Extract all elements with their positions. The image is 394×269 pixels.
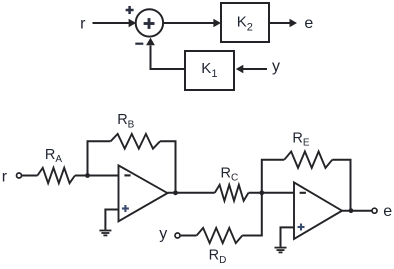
resistor RB	[111, 112, 160, 149]
svg-text:r: r	[2, 168, 8, 185]
ground (U2 non-inverting)	[275, 248, 287, 253]
minus sign (feedback polarity)	[135, 43, 143, 45]
wire K2 to e with arrowhead	[269, 19, 297, 28]
wire K1 to summing junction with arrowhead	[146, 38, 185, 69]
ground (U1 non-inverting)	[99, 231, 111, 236]
wire r to summing junction with arrowhead	[93, 19, 137, 28]
resistor RC	[215, 165, 249, 201]
op-amp U1	[119, 165, 168, 221]
wire RD to node B	[242, 193, 261, 236]
svg-text:e: e	[304, 15, 313, 32]
wire U1 output to RC	[168, 192, 215, 194]
wire RE to U2 output	[332, 160, 350, 211]
summing junction circle	[136, 9, 163, 36]
resistor RE	[284, 131, 332, 168]
wire RC to op-amp U2 inverting input	[249, 192, 295, 194]
svg-text:K1: K1	[201, 60, 217, 80]
svg-text:RD: RD	[209, 248, 227, 266]
op-amp U2	[294, 182, 342, 239]
wire U2 non-inverting input to ground	[281, 227, 295, 247]
wire node B up to RE	[262, 160, 285, 193]
junction U1 output / RB feedback	[173, 190, 178, 195]
svg-text:e: e	[383, 203, 392, 220]
junction node A (RA / RB / U1 inverting)	[85, 173, 90, 178]
resistor RA	[37, 147, 75, 183]
wire y to K1 with arrowhead	[236, 65, 267, 74]
plus sign inside summing junction	[144, 18, 155, 29]
block K2	[221, 3, 269, 42]
svg-text:y: y	[159, 225, 167, 242]
wire U2 output to e terminal	[342, 210, 372, 212]
wire U1 non-inverting input to ground	[105, 210, 118, 230]
svg-text:y: y	[272, 58, 280, 75]
svg-text:K2: K2	[237, 13, 253, 33]
block K1	[185, 51, 234, 90]
terminal y (open circle)	[175, 233, 180, 238]
plus sign (r input polarity)	[126, 6, 134, 14]
svg-text:RA: RA	[45, 147, 62, 165]
svg-text:RB: RB	[117, 112, 134, 130]
wire r terminal to RA	[21, 175, 37, 177]
terminal r (open circle)	[17, 173, 22, 178]
terminal e (open circle)	[372, 208, 377, 213]
svg-text:RE: RE	[292, 131, 309, 149]
wire summing junction to block K2 with arrowhead	[163, 19, 221, 28]
wire RB to U1 output	[160, 141, 176, 193]
wire y terminal to RD	[180, 235, 197, 237]
wire node A up to RB	[88, 141, 111, 175]
junction U2 output / RE feedback	[349, 208, 354, 213]
svg-text:r: r	[80, 15, 86, 32]
svg-text:RC: RC	[221, 165, 239, 183]
resistor RD	[197, 228, 243, 266]
junction node B (RC / RD / RE / U2 inverting)	[259, 190, 264, 195]
wire RA to op-amp U1 inverting input	[75, 175, 119, 177]
